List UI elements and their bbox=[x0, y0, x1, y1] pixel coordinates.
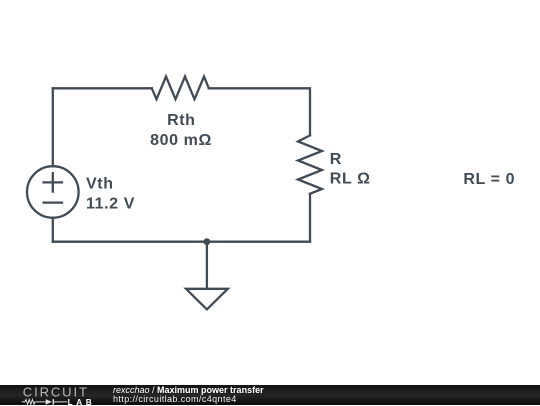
svg-text:R: R bbox=[330, 151, 342, 168]
footer bar bbox=[0, 385, 540, 406]
svg-text:800 mΩ: 800 mΩ bbox=[150, 132, 212, 149]
wire left vertical upper bbox=[52, 88, 54, 166]
svg-text:Vth: Vth bbox=[86, 176, 114, 193]
svg-text:Rth: Rth bbox=[167, 112, 195, 129]
logo diode bbox=[46, 399, 52, 405]
svg-text:11.2 V: 11.2 V bbox=[86, 196, 135, 213]
node junction dot bbox=[204, 238, 211, 245]
resistor R2 (RL) zigzag bbox=[298, 135, 322, 193]
resistor R1 (Rth) zigzag bbox=[152, 77, 209, 100]
svg-text:RL = 0: RL = 0 bbox=[463, 171, 515, 188]
wire top-left horizontal bbox=[53, 87, 152, 89]
minus sign bbox=[44, 201, 62, 203]
wire bottom horizontal bbox=[53, 241, 310, 243]
CircuitLab logo bbox=[0, 385, 100, 406]
wire left vertical lower bbox=[52, 218, 54, 242]
wire top-right horizontal and right drop bbox=[209, 88, 310, 135]
voltage source V1 (Vth) circle bbox=[27, 166, 79, 218]
ground triangle bbox=[186, 289, 228, 310]
wire right vertical lower bbox=[309, 194, 311, 242]
svg-text:LAB: LAB bbox=[68, 397, 96, 405]
ground stub wire bbox=[206, 242, 208, 289]
footer title line bbox=[113, 386, 264, 395]
footer url line bbox=[113, 395, 237, 404]
plus sign bbox=[44, 173, 62, 191]
logo resistor zigzag bbox=[22, 399, 46, 404]
svg-text:RL Ω: RL Ω bbox=[330, 171, 371, 188]
